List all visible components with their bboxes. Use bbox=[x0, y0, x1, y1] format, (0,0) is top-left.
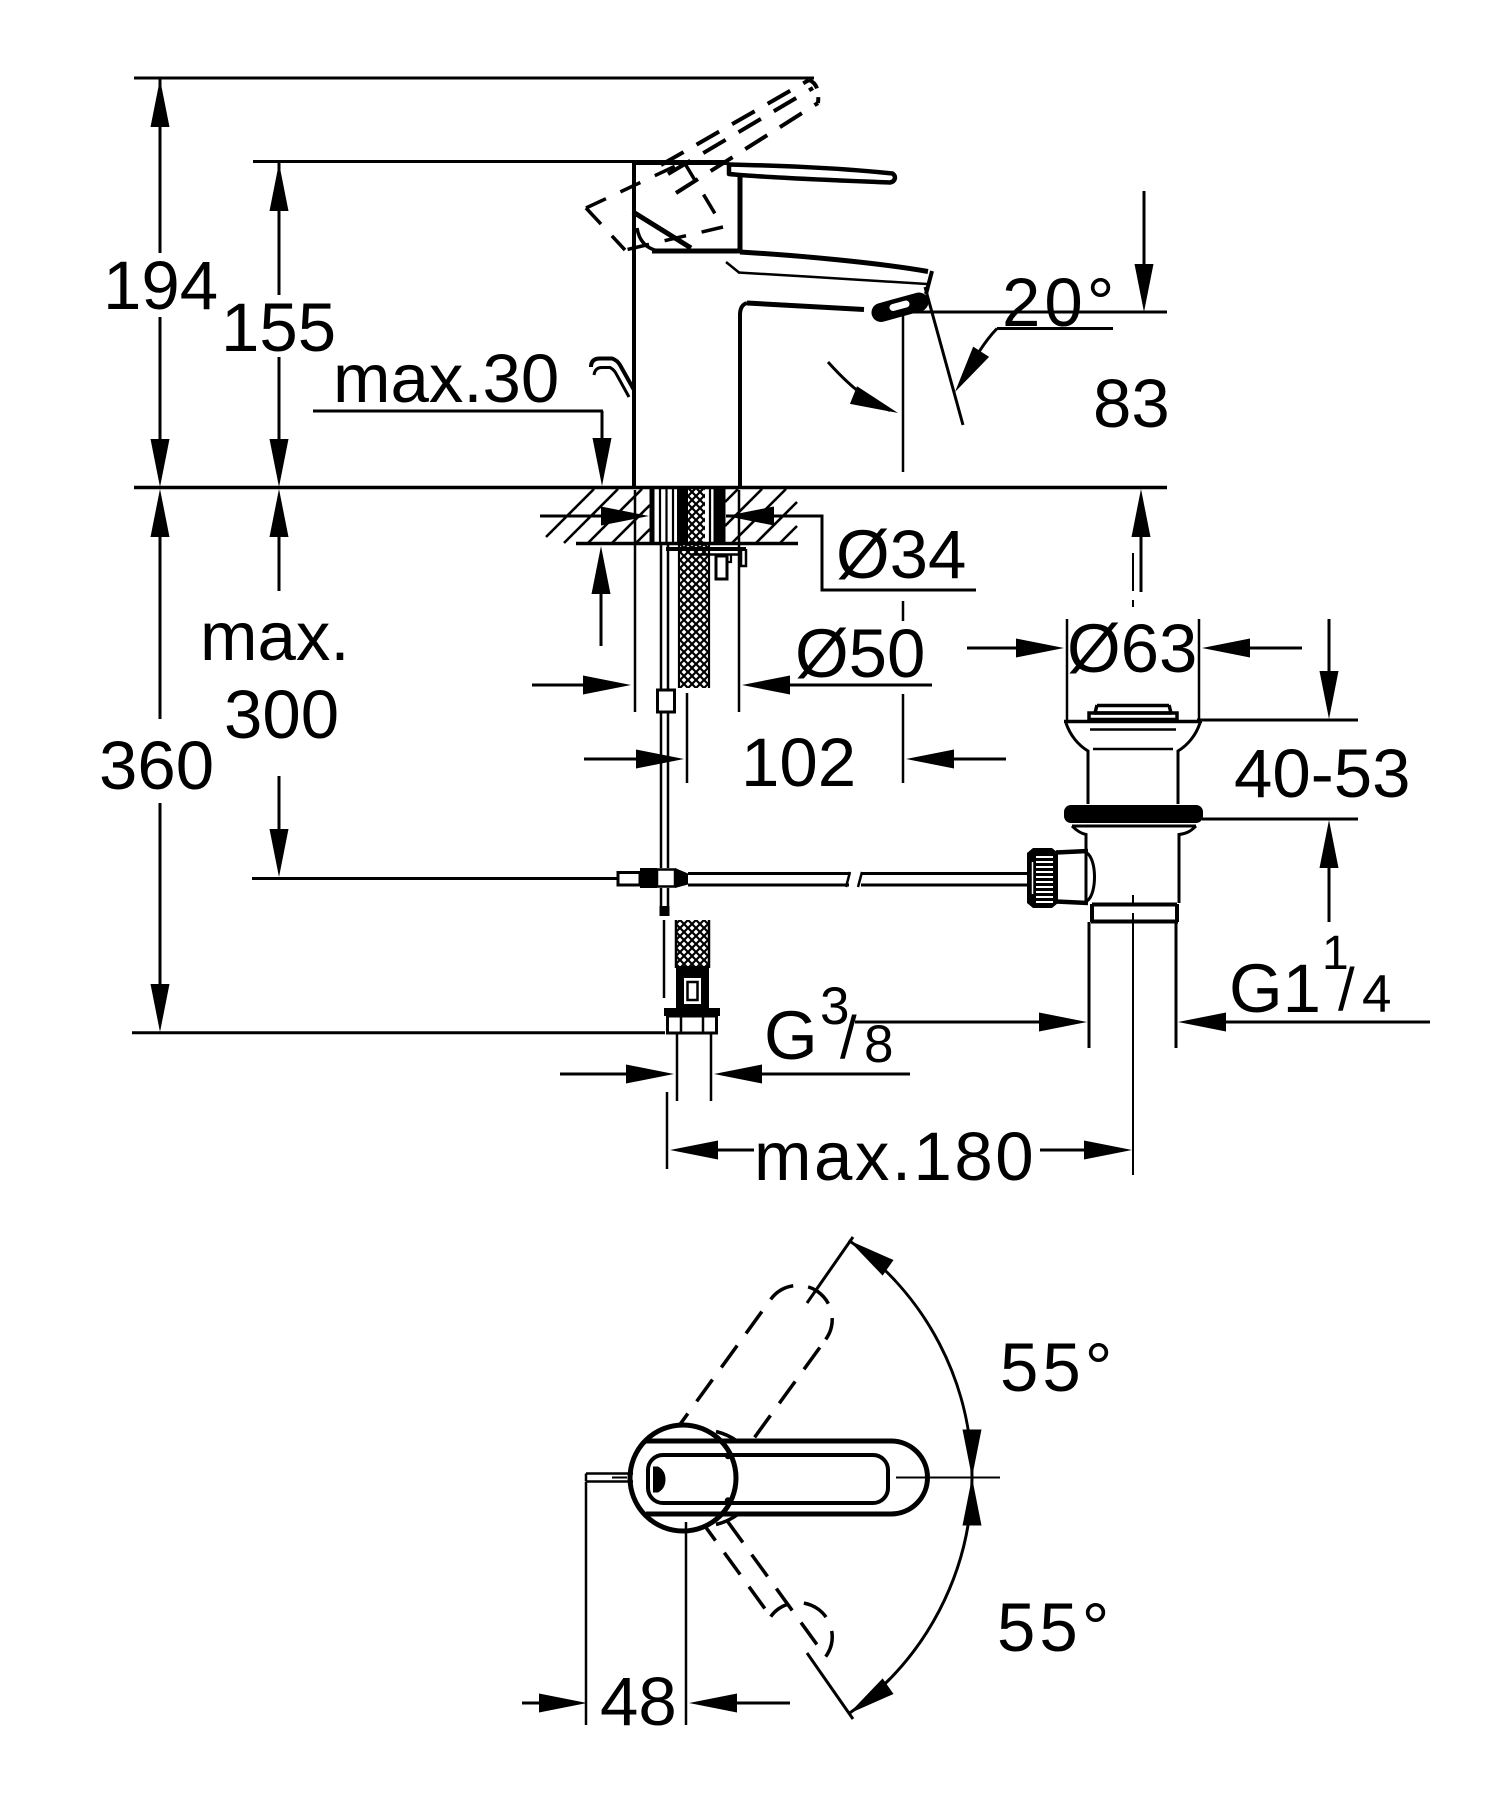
20deg leader arrowhead bbox=[947, 347, 989, 398]
arrow 55 lower end bbox=[843, 1678, 893, 1721]
handle top-view rotated up 55 (dashed ghost) bbox=[672, 1299, 771, 1435]
40-53 down arrow tail bbox=[1328, 619, 1331, 672]
faucet body right wall bbox=[738, 313, 742, 487]
stream line dash bbox=[902, 601, 905, 621]
faucet body left wall bbox=[632, 163, 636, 487]
40-53 upper bound line bbox=[1197, 719, 1358, 722]
valve side port bulge bbox=[1087, 853, 1095, 901]
deck counter bottom line bbox=[576, 542, 798, 546]
svg-text:40-53: 40-53 bbox=[1234, 735, 1410, 812]
braided supply hose upper bbox=[679, 545, 709, 688]
valve centerline lower bbox=[1132, 913, 1134, 1175]
G3/8 pipe left bbox=[676, 1035, 679, 1102]
Ø63 right extension bbox=[1198, 619, 1201, 721]
horizontal rod seg1 top bbox=[688, 872, 849, 875]
horizontal rod seg2 top bbox=[861, 872, 1028, 875]
svg-text:4: 4 bbox=[1362, 965, 1391, 1024]
mounting washer line bbox=[666, 547, 746, 551]
arrow 48 right bbox=[689, 1694, 737, 1713]
lever handle raised position (dashed) bbox=[661, 80, 809, 165]
pull tab end cap bbox=[585, 1474, 588, 1482]
svg-text:Ø34: Ø34 bbox=[836, 516, 966, 593]
pop-up rod knob inner bbox=[594, 368, 629, 398]
braided hose lower bbox=[676, 920, 709, 968]
shank inner line 1 bbox=[659, 489, 661, 543]
arrow 194 bottom bbox=[151, 439, 170, 487]
mounting bracket tab bbox=[716, 556, 727, 579]
20 deg tilted line bbox=[925, 287, 963, 425]
pull rod left line bbox=[660, 545, 663, 868]
handle block raised position (dashed) bbox=[586, 162, 723, 250]
handle top-view rotated down 55 (dashed ghost) bbox=[727, 1521, 826, 1657]
max30 up arrow tail bbox=[600, 594, 603, 646]
dim Ø63 left tail bbox=[967, 647, 1016, 650]
horizontal rod seg1 bottom bbox=[688, 884, 849, 887]
valve body right side bbox=[1179, 826, 1196, 903]
svg-text:max.30: max.30 bbox=[333, 340, 559, 417]
dim Ø63 right tail bbox=[1250, 647, 1302, 650]
dim max300 line upper bbox=[278, 537, 281, 591]
valve sleeve ring bbox=[1091, 904, 1178, 922]
handle top view solid bbox=[646, 1441, 928, 1514]
pull rod right line bbox=[667, 545, 670, 868]
lever inner outline top view bbox=[648, 1455, 888, 1503]
stream vertical line bbox=[902, 312, 905, 472]
pull tab bottom line bbox=[586, 1480, 633, 1483]
valve port bottom line bbox=[1056, 902, 1088, 904]
Ø63 left extension bbox=[1066, 619, 1069, 721]
valve centerline dash2 bbox=[1132, 895, 1134, 904]
Ø34 leader bbox=[726, 516, 976, 590]
svg-text:Ø50: Ø50 bbox=[795, 615, 925, 692]
svg-text:/: / bbox=[840, 1004, 857, 1071]
arrow G3/8 right bbox=[714, 1065, 762, 1084]
valve plug cap top bbox=[1094, 705, 1172, 713]
Ø50 left extension bbox=[634, 490, 637, 712]
dim G1-1/4 left tail bbox=[855, 1021, 1039, 1024]
svg-text:102: 102 bbox=[741, 724, 856, 801]
dot upper bbox=[725, 1453, 731, 1459]
arrow max180 right bbox=[1084, 1141, 1132, 1160]
arrow G1-1/4 left bbox=[1039, 1013, 1087, 1032]
40-53 lower bound line bbox=[1202, 818, 1358, 821]
deck cross-section hatching bbox=[546, 489, 797, 543]
arrow max300 bottom bbox=[270, 829, 289, 877]
svg-text:G: G bbox=[764, 997, 818, 1074]
svg-text:G1: G1 bbox=[1229, 950, 1321, 1027]
pull rod below clamp right bbox=[667, 888, 670, 908]
shank inner line 2 bbox=[665, 489, 667, 543]
arrow 48 left bbox=[539, 1694, 587, 1713]
handle index mark bbox=[653, 1467, 666, 1493]
shank braid section bbox=[688, 489, 705, 545]
handle block chamfer bbox=[633, 212, 691, 248]
hose lower left edge bbox=[675, 920, 678, 968]
mounting step right bbox=[741, 549, 746, 566]
shank right fill bbox=[714, 489, 721, 543]
20deg leader curve bbox=[963, 329, 997, 382]
arrow Ø50 left bbox=[583, 676, 631, 695]
rotation arc arrowhead bbox=[850, 386, 902, 422]
pull rod end cap bbox=[660, 906, 670, 916]
G3/8 pipe right bbox=[710, 1035, 713, 1102]
shank inner line 3 bbox=[672, 489, 674, 543]
55 deg lower ray bbox=[807, 1653, 853, 1719]
spout shoulder tick bbox=[726, 262, 739, 273]
svg-text:55°: 55° bbox=[1000, 1329, 1116, 1406]
dot lower bbox=[725, 1497, 731, 1503]
dim max180 line left bbox=[716, 1149, 754, 1152]
valve lower flange line bbox=[1072, 825, 1196, 828]
arrow 40-53 top bbox=[1320, 671, 1339, 719]
dim 360 line lower bbox=[159, 803, 162, 986]
handle block bottom edge bbox=[652, 249, 742, 254]
arrow 102 left bbox=[636, 750, 684, 769]
neck fillet top bbox=[716, 1432, 737, 1442]
svg-text:360: 360 bbox=[99, 727, 214, 804]
spout aerator outlet bbox=[881, 302, 919, 313]
dim 360 bottom reference line bbox=[132, 1031, 665, 1034]
hose nut body bbox=[668, 1016, 717, 1033]
valve knurled knob bbox=[1027, 848, 1058, 908]
svg-text:300: 300 bbox=[224, 676, 339, 753]
dim 360 line upper bbox=[159, 537, 162, 719]
dim 155 top reference line bbox=[253, 160, 634, 163]
spout inner contour line bbox=[738, 273, 927, 285]
mounting step inner bbox=[727, 555, 731, 563]
faucet axis extension tick bbox=[686, 693, 689, 783]
handle block right wall bbox=[738, 171, 743, 252]
handle pivot arc bbox=[637, 228, 658, 251]
svg-text:Ø63: Ø63 bbox=[1067, 610, 1197, 687]
arrow Ø34 right bbox=[726, 507, 774, 526]
rod clamp middle bbox=[657, 870, 675, 887]
valve flange top line bbox=[1064, 720, 1202, 724]
svg-text:max.180: max.180 bbox=[754, 1118, 1036, 1195]
dim max180 line right bbox=[1040, 1149, 1086, 1152]
valve body left side bbox=[1072, 826, 1086, 903]
svg-text:194: 194 bbox=[103, 247, 218, 324]
shank black band bbox=[677, 489, 688, 543]
pull rod coupling bbox=[658, 690, 675, 712]
55 deg upper ray bbox=[807, 1237, 853, 1303]
neck fillet bottom bbox=[716, 1515, 737, 1525]
hose lower right edge bbox=[708, 920, 711, 968]
svg-text:83: 83 bbox=[1093, 365, 1170, 442]
arrow max180 left bbox=[670, 1141, 718, 1160]
dim G3/8 right tail bbox=[762, 1073, 910, 1076]
valve centerline upper dash bbox=[1132, 553, 1134, 591]
deck counter top line bbox=[134, 486, 1167, 490]
pull rod below clamp left bbox=[660, 888, 663, 908]
pop-up rod knob outer bbox=[591, 359, 634, 391]
dim 194 line lower bbox=[159, 317, 162, 440]
horizontal rod seg2 bottom bbox=[861, 884, 1028, 887]
48 left extension bbox=[585, 1482, 588, 1725]
lever handle closed position bbox=[729, 165, 895, 183]
valve tailpipe left bbox=[1088, 922, 1091, 1048]
arrow G3/8 left bbox=[626, 1065, 674, 1084]
nut facet line 2 bbox=[702, 1016, 705, 1033]
spout tip face bbox=[926, 271, 932, 294]
dim 102 right tail bbox=[954, 758, 1006, 761]
arrow 155 bottom bbox=[270, 439, 289, 487]
arrow 194 top bbox=[151, 79, 170, 127]
svg-text:48: 48 bbox=[600, 1663, 677, 1740]
arrow Ø50 right bbox=[742, 676, 790, 695]
dim 155 line upper bbox=[278, 162, 281, 295]
dim 48 right tail bbox=[737, 1702, 790, 1705]
arrow 360 top bbox=[151, 489, 170, 537]
arrow max30 up bbox=[592, 546, 611, 594]
shank inner line 4 bbox=[709, 489, 711, 543]
hose right edge bbox=[708, 545, 710, 688]
arrow max30 down bbox=[593, 438, 612, 486]
dim 83 up arrow tail bbox=[1140, 537, 1143, 592]
rod clamp left block bbox=[640, 868, 657, 888]
svg-text:max.: max. bbox=[200, 598, 350, 675]
arrow Ø34 left bbox=[601, 507, 649, 526]
max300 bottom reference line bbox=[252, 877, 618, 880]
svg-text:155: 155 bbox=[221, 289, 336, 366]
raised lever tip cap bbox=[809, 80, 818, 103]
svg-text:55°: 55° bbox=[997, 1589, 1113, 1666]
valve rubber seal bbox=[1064, 805, 1203, 823]
arrow Ø63 right bbox=[1202, 639, 1250, 658]
shank right wall bbox=[721, 489, 726, 543]
valve centerline dot bbox=[1132, 600, 1134, 607]
arrow 155 top bbox=[270, 163, 289, 211]
dim max300 line lower bbox=[278, 776, 281, 830]
stream line lower segment bbox=[902, 694, 905, 783]
55 deg arc lower bbox=[849, 1478, 972, 1714]
40-53 up arrow tail bbox=[1328, 868, 1331, 922]
handle lever outline top view bbox=[646, 1441, 928, 1514]
spout top edge bbox=[740, 252, 928, 272]
dim 155 line lower bbox=[278, 357, 281, 440]
rod break right cut bbox=[858, 872, 862, 887]
arrow Ø63 left bbox=[1016, 639, 1064, 658]
dim G3/8 left tail bbox=[560, 1073, 626, 1076]
arrow G1-1/4 right bbox=[1178, 1013, 1226, 1032]
arrow 360 bottom bbox=[151, 984, 170, 1032]
Ø50 right extension bbox=[738, 490, 741, 712]
mounting nut line bbox=[690, 553, 741, 556]
55 deg arc upper bbox=[849, 1240, 972, 1477]
dim G1-1/4 right tail bbox=[1226, 1021, 1430, 1024]
handle knob circle top view bbox=[630, 1425, 736, 1531]
valve plug cap base bbox=[1089, 713, 1177, 720]
valve tailpipe right bbox=[1175, 922, 1178, 1048]
dim 194 top reference line bbox=[134, 77, 814, 80]
rotation arc bbox=[828, 362, 890, 411]
arrow 55 upper end bbox=[843, 1232, 893, 1275]
valve flange right skirt bbox=[1178, 723, 1200, 804]
pull rod lower extension bbox=[663, 920, 666, 998]
pull tab top line bbox=[586, 1472, 633, 1475]
rod break left cut bbox=[846, 872, 850, 887]
dim Ø50 right tail bbox=[790, 684, 932, 687]
outlet level reference line bbox=[905, 311, 1167, 314]
arrow 83 bottom bbox=[1132, 489, 1151, 537]
20deg label underline bbox=[997, 327, 1113, 330]
max30 leader line bbox=[313, 410, 603, 413]
dim Ø34 left tail bbox=[540, 515, 603, 518]
svg-text:/: / bbox=[1338, 956, 1355, 1023]
top view centerline right bbox=[896, 1477, 1000, 1479]
dim 102 left tail bbox=[584, 758, 636, 761]
rod clamp cone bbox=[675, 868, 688, 888]
max30 down arrow tail bbox=[601, 411, 604, 441]
handle block top edge bbox=[632, 160, 729, 165]
arrow 40-53 bottom bbox=[1320, 820, 1339, 868]
dim 194 line upper bbox=[159, 78, 162, 253]
hose nut flange bbox=[664, 1008, 720, 1016]
svg-text:8: 8 bbox=[864, 1015, 893, 1074]
hourglass arrow lower bbox=[963, 1478, 982, 1526]
hose fitting bbox=[676, 966, 709, 1010]
arrow max300 top bbox=[270, 489, 289, 537]
tab centerline dash bbox=[612, 1477, 627, 1479]
arrow 102 right bbox=[906, 750, 954, 769]
valve neck ring line bbox=[1093, 748, 1173, 751]
arrow 83 top bbox=[1135, 264, 1154, 312]
hourglass arrow upper bbox=[963, 1430, 982, 1478]
48 right extension bbox=[685, 1522, 688, 1725]
dim 48 left tail bbox=[522, 1702, 539, 1705]
hose left edge bbox=[678, 545, 680, 688]
adjusting screw bbox=[618, 873, 640, 886]
spout underside corner bbox=[740, 303, 747, 315]
dim 83 down arrow tail bbox=[1143, 191, 1146, 265]
valve flange inner line bbox=[1090, 728, 1176, 731]
shank left wall bbox=[650, 489, 655, 543]
dim Ø50 left tail bbox=[532, 684, 585, 687]
spout underside bbox=[747, 303, 864, 310]
nut facet line 1 bbox=[680, 1016, 683, 1033]
valve port top line bbox=[1056, 851, 1088, 853]
valve flange left skirt bbox=[1066, 723, 1088, 804]
max180 left extension bbox=[666, 1092, 669, 1169]
